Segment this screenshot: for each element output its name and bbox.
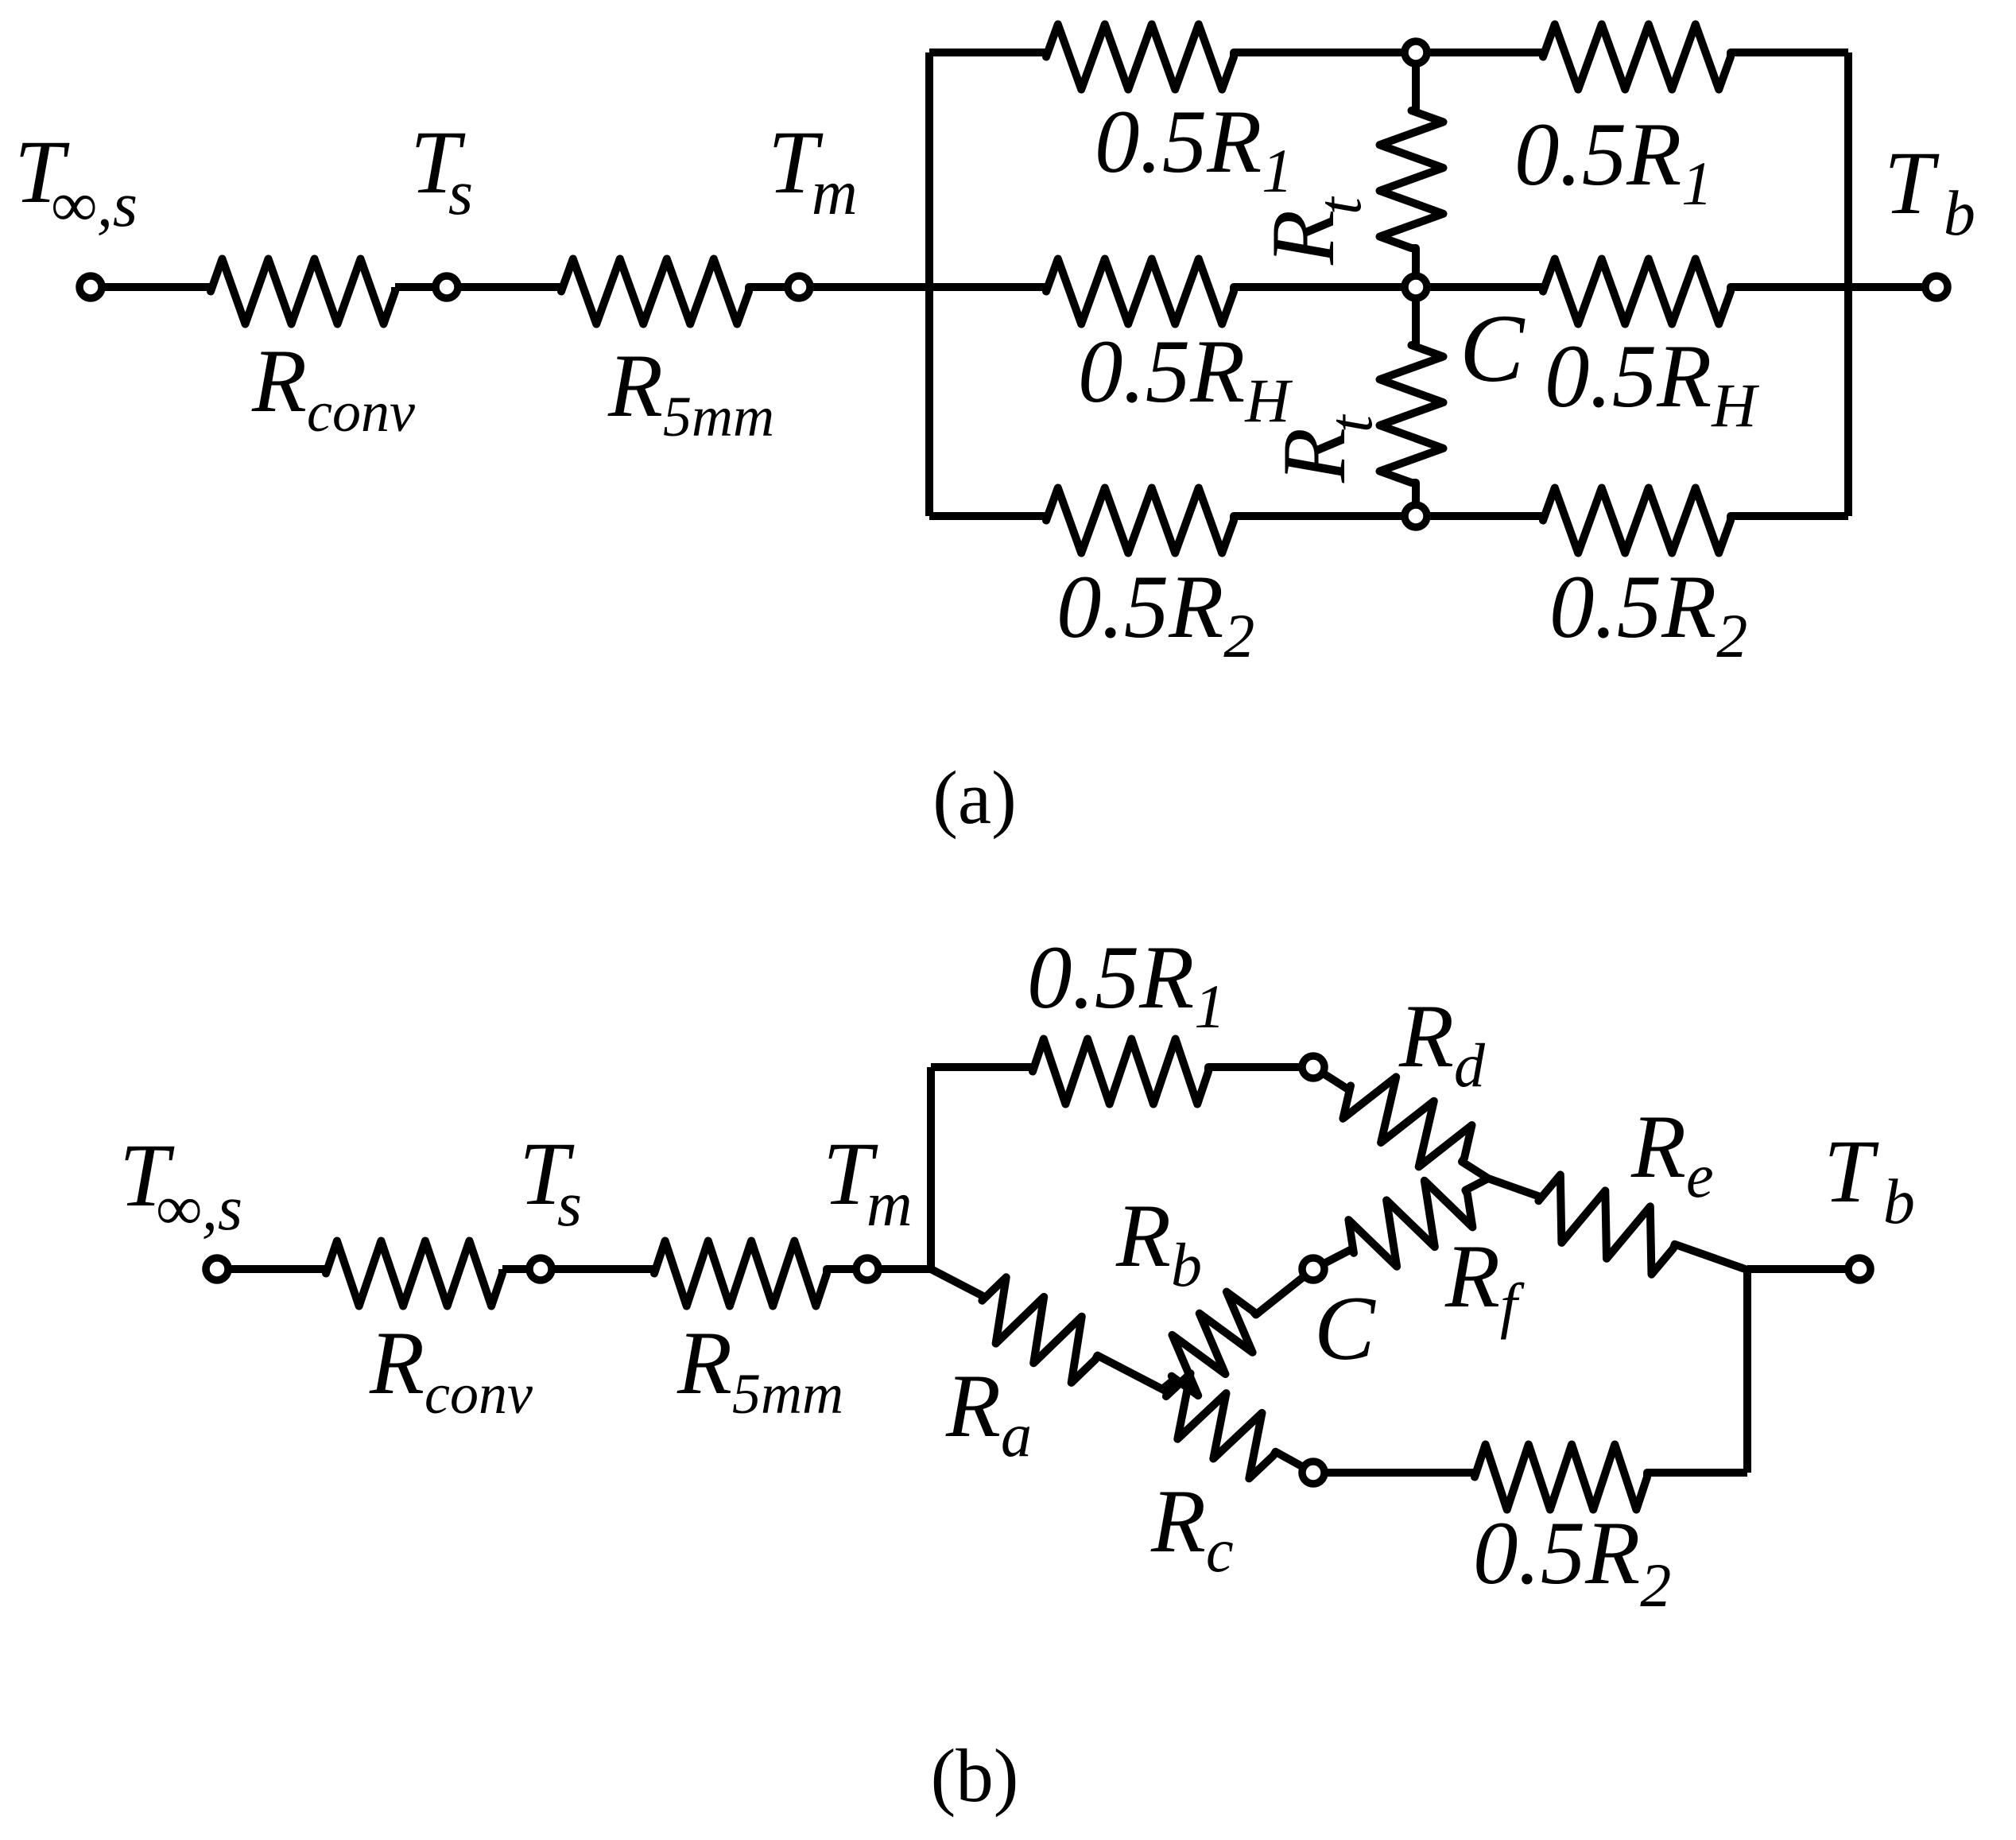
right bus (a): [1844, 52, 1852, 516]
svg-text:Rd: Rd: [1398, 987, 1486, 1100]
resistor Rt lower (a): [1380, 287, 1444, 516]
svg-text:0.5R2: 0.5R2: [1056, 557, 1254, 670]
svg-text:R5mm: R5mm: [677, 1314, 843, 1426]
wire: [91, 283, 211, 291]
svg-text:Rc: Rc: [1150, 1472, 1234, 1585]
resistor 0.5R2 left (a): [929, 488, 1416, 553]
resistor 0.5RH right (a): [1416, 259, 1848, 324]
resistor Rf (b): [1313, 1178, 1488, 1269]
svg-text:0.5R2: 0.5R2: [1473, 1504, 1671, 1620]
resistor R_conv (a): [211, 259, 395, 324]
resistor 0.5R1 (b): [931, 1039, 1313, 1104]
node Tb (b): [1848, 1258, 1871, 1280]
resistor R_5mm (a): [460, 259, 786, 324]
node C bottom (b): [1302, 1462, 1324, 1484]
svg-text:Rb: Rb: [1115, 1186, 1202, 1299]
svg-text:0.5R2: 0.5R2: [1549, 557, 1747, 670]
svg-text:R5mm: R5mm: [607, 336, 774, 448]
svg-text:Re: Re: [1630, 1097, 1714, 1210]
svg-text:Rconv: Rconv: [369, 1314, 533, 1426]
resistor R_conv (b): [326, 1241, 502, 1306]
svg-text:0.5RH: 0.5RH: [1545, 327, 1759, 440]
node Ts (b): [529, 1258, 552, 1280]
svg-text:Tm: Tm: [768, 113, 858, 228]
node top mid (a): [1405, 41, 1427, 64]
resistor Rb (b): [1162, 1269, 1313, 1396]
svg-text:Rt: Rt: [1254, 196, 1374, 266]
resistor 0.5R1 left (a): [929, 25, 1416, 90]
bottom branch (b): resistor 0.5R2: [1313, 1445, 1747, 1510]
node B mid (b): [1302, 1258, 1324, 1280]
resistor 0.5RH left (a): [1046, 259, 1416, 324]
svg-text:0.5RH: 0.5RH: [1078, 322, 1293, 435]
resistor Ra (b): [931, 1269, 1162, 1389]
svg-text:Ts: Ts: [519, 1124, 582, 1240]
wire: [502, 1265, 541, 1273]
resistor 0.5R2 right (a): [1416, 488, 1848, 553]
node bottom mid (a): [1405, 505, 1427, 527]
svg-text:Rf: Rf: [1444, 1227, 1525, 1340]
node T_inf_s (a): [79, 276, 102, 298]
resistor Rt upper (a): [1380, 52, 1444, 287]
svg-text:Tm: Tm: [823, 1124, 913, 1240]
wire: [447, 283, 460, 291]
wire to Tb (a): [1848, 283, 1937, 291]
resistor Re (b): [1488, 1174, 1747, 1274]
node T_inf_s (b): [206, 1258, 228, 1280]
svg-text:Ra: Ra: [945, 1357, 1032, 1469]
resistor Rc (b): [1162, 1373, 1313, 1478]
node Tm (a): [788, 276, 810, 298]
wire: [854, 1265, 931, 1273]
svg-text:0.5R1: 0.5R1: [1027, 928, 1225, 1041]
svg-text:(b): (b): [931, 1733, 1019, 1818]
svg-text:0.5R1: 0.5R1: [1095, 92, 1293, 205]
svg-text:C: C: [1314, 1278, 1376, 1379]
svg-text:Tb: Tb: [1884, 134, 1975, 249]
node center (a): [1405, 276, 1427, 298]
resistor 0.5R1 right (a): [1416, 25, 1848, 90]
node Tb (a): [1925, 276, 1948, 298]
svg-text:C: C: [1460, 295, 1526, 402]
wire: [395, 283, 447, 291]
left bus (a): [925, 52, 933, 516]
svg-text:T∞,s: T∞,s: [14, 122, 138, 240]
resistor Rd (b): [1313, 1067, 1488, 1178]
svg-text:Rconv: Rconv: [251, 332, 415, 444]
svg-text:Ts: Ts: [410, 113, 473, 228]
right riser (b): [1743, 1270, 1751, 1473]
node A top (b): [1302, 1056, 1324, 1078]
svg-text:T∞,s: T∞,s: [119, 1126, 242, 1244]
wire to Tb (b): [1747, 1265, 1859, 1273]
node Tm (b): [856, 1258, 878, 1280]
resistor R_5mm (b): [554, 1241, 854, 1306]
wire (b): [217, 1265, 326, 1273]
svg-text:(a): (a): [932, 755, 1016, 840]
svg-text:Tb: Tb: [1824, 1122, 1915, 1237]
node Ts (a): [436, 276, 458, 298]
riser (b): [927, 1067, 935, 1269]
svg-text:0.5R1: 0.5R1: [1514, 105, 1712, 218]
